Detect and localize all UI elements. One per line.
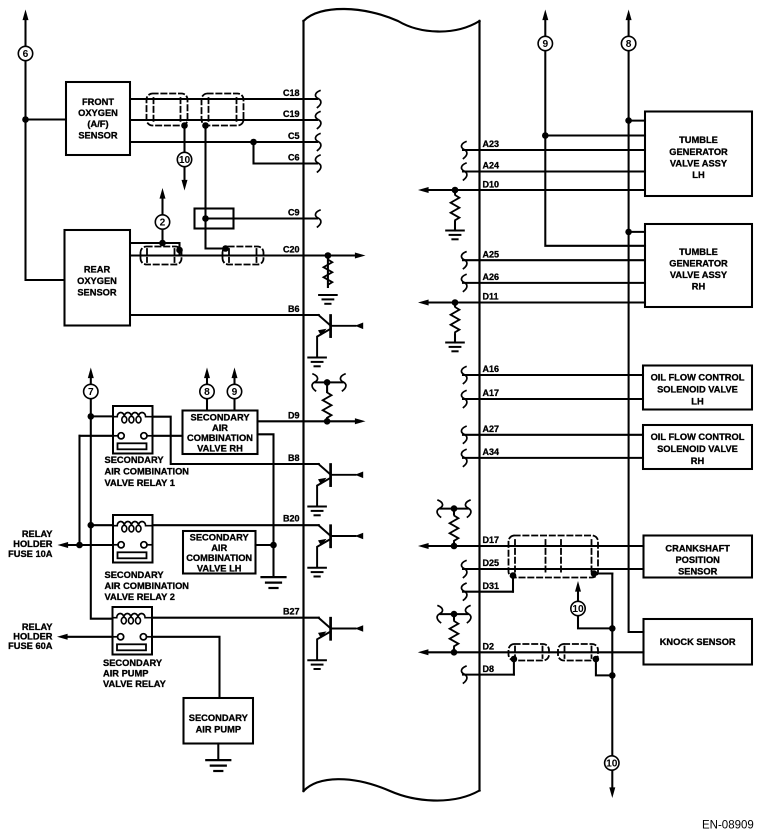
svg-text:SENSOR: SENSOR [77, 288, 117, 298]
svg-text:A16: A16 [483, 364, 500, 374]
svg-text:COMBINATION: COMBINATION [187, 433, 253, 443]
svg-text:6: 6 [23, 49, 29, 60]
svg-text:SENSOR: SENSOR [678, 567, 718, 577]
svg-text:9: 9 [542, 39, 548, 50]
svg-text:RH: RH [692, 282, 706, 292]
svg-text:SECONDARY: SECONDARY [105, 570, 165, 580]
svg-text:AIR PUMP: AIR PUMP [196, 725, 241, 735]
svg-text:VALVE RELAY 1: VALVE RELAY 1 [105, 478, 175, 488]
svg-text:SOLENOID VALVE: SOLENOID VALVE [657, 444, 738, 454]
svg-text:VALVE RELAY 2: VALVE RELAY 2 [105, 592, 175, 602]
svg-text:C9: C9 [288, 208, 300, 218]
svg-text:C20: C20 [283, 244, 300, 254]
svg-text:B6: B6 [288, 304, 300, 314]
svg-text:D9: D9 [288, 411, 300, 421]
svg-text:C19: C19 [283, 109, 300, 119]
svg-text:OXYGEN: OXYGEN [77, 276, 117, 286]
svg-text:VALVE RELAY: VALVE RELAY [103, 679, 167, 689]
svg-text:RH: RH [691, 456, 705, 466]
svg-text:SECONDARY: SECONDARY [190, 413, 250, 423]
svg-text:10: 10 [572, 604, 584, 615]
svg-text:A24: A24 [483, 161, 500, 171]
svg-text:D8: D8 [483, 664, 495, 674]
svg-text:COMBINATION: COMBINATION [186, 553, 252, 563]
svg-text:REAR: REAR [84, 265, 111, 275]
svg-text:FUSE 60A: FUSE 60A [8, 641, 53, 651]
svg-text:OXYGEN: OXYGEN [78, 108, 118, 118]
svg-text:A23: A23 [483, 139, 500, 149]
svg-text:SOLENOID VALVE: SOLENOID VALVE [657, 385, 738, 395]
svg-text:AIR PUMP: AIR PUMP [103, 669, 148, 679]
svg-text:FRONT: FRONT [82, 97, 114, 107]
svg-text:A17: A17 [483, 388, 500, 398]
svg-text:10: 10 [606, 759, 618, 770]
svg-text:8: 8 [626, 39, 632, 50]
svg-text:FUSE 10A: FUSE 10A [8, 549, 53, 559]
svg-text:A34: A34 [483, 447, 500, 457]
svg-text:CRANKSHAFT: CRANKSHAFT [665, 544, 730, 554]
svg-text:AIR COMBINATION: AIR COMBINATION [105, 581, 190, 591]
svg-text:A25: A25 [483, 249, 500, 259]
svg-text:AIR COMBINATION: AIR COMBINATION [105, 467, 190, 477]
svg-text:D2: D2 [483, 642, 495, 652]
svg-text:VALVE ASSY: VALVE ASSY [670, 270, 728, 280]
svg-text:C6: C6 [288, 153, 300, 163]
svg-text:A27: A27 [483, 424, 500, 434]
svg-text:C18: C18 [283, 88, 300, 98]
svg-text:HOLDER: HOLDER [13, 632, 53, 642]
svg-text:VALVE RH: VALVE RH [197, 443, 243, 453]
svg-text:7: 7 [88, 387, 94, 398]
svg-text:OIL FLOW CONTROL: OIL FLOW CONTROL [651, 432, 745, 442]
svg-text:HOLDER: HOLDER [13, 539, 53, 549]
svg-text:SECONDARY: SECONDARY [105, 455, 165, 465]
svg-text:VALVE LH: VALVE LH [197, 564, 242, 574]
svg-text:D31: D31 [483, 581, 500, 591]
svg-text:10: 10 [179, 155, 191, 166]
svg-text:OIL FLOW CONTROL: OIL FLOW CONTROL [651, 373, 745, 383]
svg-text:SECONDARY: SECONDARY [189, 713, 249, 723]
svg-text:LH: LH [691, 397, 704, 407]
svg-text:2: 2 [160, 218, 166, 229]
svg-text:B27: B27 [283, 607, 300, 617]
svg-text:(A/F): (A/F) [87, 119, 108, 129]
svg-text:TUMBLE: TUMBLE [679, 135, 718, 145]
svg-text:GENERATOR: GENERATOR [669, 259, 728, 269]
svg-text:D11: D11 [483, 292, 499, 302]
svg-text:B8: B8 [288, 453, 300, 463]
svg-text:SECONDARY: SECONDARY [103, 658, 163, 668]
svg-text:SECONDARY: SECONDARY [190, 533, 250, 543]
svg-text:SENSOR: SENSOR [78, 130, 118, 140]
svg-text:KNOCK SENSOR: KNOCK SENSOR [660, 637, 736, 647]
svg-text:B20: B20 [283, 514, 300, 524]
svg-text:D17: D17 [483, 535, 500, 545]
svg-text:EN-08909: EN-08909 [702, 820, 754, 832]
svg-text:9: 9 [232, 387, 238, 398]
svg-text:A26: A26 [483, 272, 500, 282]
svg-text:GENERATOR: GENERATOR [669, 147, 728, 157]
svg-text:D10: D10 [483, 179, 500, 189]
svg-text:AIR: AIR [211, 543, 227, 553]
svg-text:AIR: AIR [212, 423, 228, 433]
svg-text:C5: C5 [288, 131, 300, 141]
svg-text:VALVE ASSY: VALVE ASSY [670, 159, 728, 169]
svg-text:TUMBLE: TUMBLE [679, 247, 718, 257]
svg-text:D25: D25 [483, 558, 500, 568]
svg-text:RELAY: RELAY [22, 622, 53, 632]
svg-text:LH: LH [692, 170, 705, 180]
svg-text:8: 8 [204, 387, 210, 398]
svg-text:POSITION: POSITION [675, 555, 720, 565]
svg-text:RELAY: RELAY [22, 529, 53, 539]
